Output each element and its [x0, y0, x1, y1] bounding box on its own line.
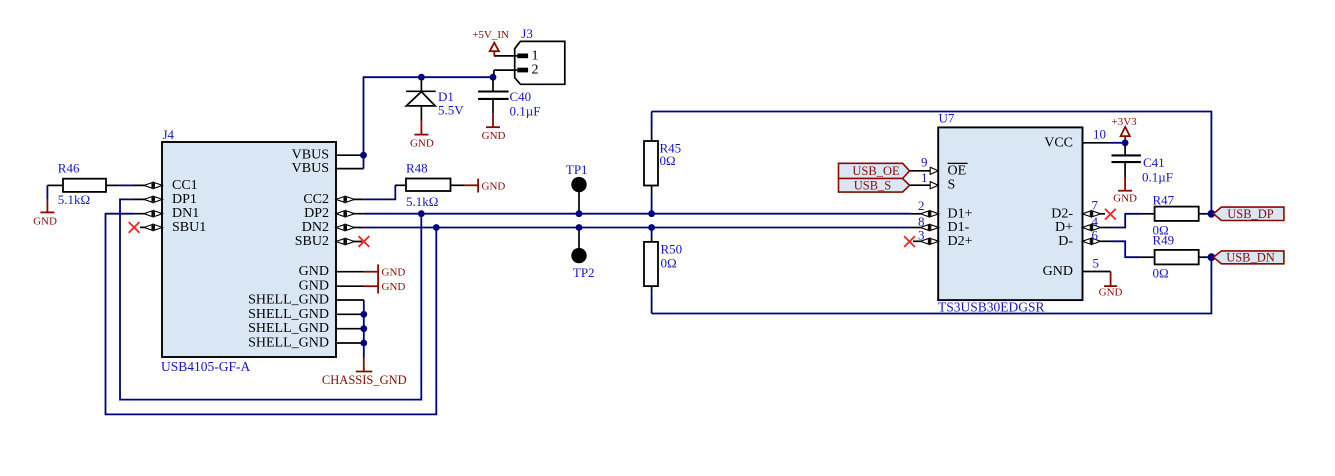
svg-text:R50: R50 [661, 242, 683, 257]
svg-text:GND: GND [299, 264, 329, 279]
svg-text:10: 10 [1093, 127, 1106, 142]
svg-text:C41: C41 [1143, 155, 1165, 170]
svg-text:VBUS: VBUS [292, 161, 329, 176]
svg-text:SBU2: SBU2 [295, 234, 329, 249]
svg-text:2: 2 [532, 63, 539, 78]
svg-text:USB_DN: USB_DN [1226, 251, 1275, 265]
svg-text:R49: R49 [1153, 233, 1175, 248]
svg-text:SHELL_GND: SHELL_GND [248, 307, 329, 322]
svg-text:TS3USB30EDGSR: TS3USB30EDGSR [938, 300, 1045, 315]
svg-text:U7: U7 [939, 111, 955, 126]
svg-text:DN2: DN2 [302, 220, 329, 235]
svg-text:R48: R48 [406, 161, 428, 176]
svg-text:CC1: CC1 [172, 178, 198, 193]
svg-text:0Ω: 0Ω [1153, 266, 1169, 281]
svg-text:GND: GND [1113, 193, 1137, 205]
svg-text:GND: GND [382, 281, 406, 293]
svg-text:7: 7 [1092, 198, 1099, 213]
svg-text:D+: D+ [1055, 220, 1073, 235]
svg-text:GND: GND [410, 138, 434, 150]
svg-text:USB_S: USB_S [854, 179, 892, 193]
svg-text:CC2: CC2 [303, 192, 329, 207]
svg-text:5.1kΩ: 5.1kΩ [58, 192, 90, 207]
svg-text:OE: OE [948, 163, 967, 178]
svg-text:GND: GND [482, 130, 506, 142]
svg-text:CHASSIS_GND: CHASSIS_GND [322, 373, 407, 387]
svg-text:TP1: TP1 [566, 162, 588, 177]
svg-text:R47: R47 [1153, 193, 1175, 208]
svg-text:1: 1 [532, 48, 539, 63]
svg-text:0.1µF: 0.1µF [510, 104, 541, 119]
svg-text:VCC: VCC [1044, 135, 1073, 150]
svg-text:1: 1 [921, 170, 928, 185]
svg-text:0.1µF: 0.1µF [1142, 170, 1173, 185]
svg-text:C40: C40 [510, 89, 532, 104]
svg-text:2: 2 [918, 198, 925, 213]
svg-text:D1-: D1- [948, 220, 970, 235]
svg-text:5: 5 [1093, 256, 1100, 271]
svg-text:+5V_IN: +5V_IN [472, 29, 509, 41]
svg-text:SHELL_GND: SHELL_GND [248, 321, 329, 336]
svg-text:USB_OE: USB_OE [852, 164, 900, 178]
svg-text:SBU1: SBU1 [172, 220, 206, 235]
svg-text:GND: GND [382, 267, 406, 279]
svg-text:DP1: DP1 [172, 192, 197, 207]
svg-text:0Ω: 0Ω [661, 256, 677, 271]
svg-text:USB4105-GF-A: USB4105-GF-A [161, 359, 251, 374]
svg-text:6: 6 [1092, 228, 1099, 243]
svg-text:GND: GND [299, 279, 329, 294]
svg-text:J3: J3 [521, 26, 533, 41]
svg-text:GND: GND [1043, 264, 1073, 279]
svg-text:3: 3 [918, 228, 925, 243]
svg-text:SHELL_GND: SHELL_GND [248, 336, 329, 351]
svg-text:D-: D- [1058, 234, 1073, 249]
svg-text:USB_DP: USB_DP [1227, 207, 1274, 221]
svg-text:DP2: DP2 [304, 206, 329, 221]
svg-text:0Ω: 0Ω [660, 153, 676, 168]
svg-text:9: 9 [921, 154, 928, 169]
svg-text:5.5V: 5.5V [438, 103, 464, 118]
svg-text:GND: GND [1099, 287, 1123, 299]
svg-text:S: S [948, 178, 956, 193]
svg-text:5.1kΩ: 5.1kΩ [406, 194, 438, 209]
svg-text:SHELL_GND: SHELL_GND [248, 293, 329, 308]
svg-text:D2+: D2+ [948, 234, 973, 249]
svg-text:R46: R46 [58, 161, 80, 176]
svg-text:GND: GND [33, 216, 57, 228]
svg-text:J4: J4 [163, 127, 175, 142]
svg-text:TP2: TP2 [573, 265, 595, 280]
svg-text:GND: GND [482, 181, 506, 193]
svg-text:+3V3: +3V3 [1112, 116, 1138, 128]
